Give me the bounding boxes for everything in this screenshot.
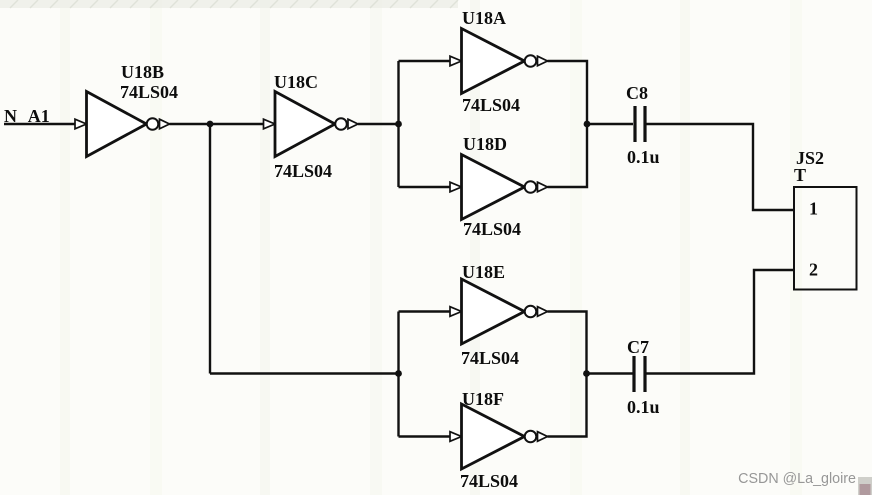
wire vertical split to U18A and U18D inputs — [397, 61, 399, 187]
top scan texture band — [0, 0, 458, 8]
junction node at (210,124) — [207, 121, 214, 128]
junction node at (586.5,373.5) — [583, 370, 590, 377]
svg-text:C7: C7 — [627, 337, 649, 357]
wire U18F output up to lower merge node — [548, 374, 587, 437]
svg-text:74LS04: 74LS04 — [462, 95, 520, 115]
svg-text:0.1u: 0.1u — [627, 147, 660, 167]
wire C8 to JS2 pin 1 — [647, 124, 795, 210]
svg-text:CSDN @La_gloire: CSDN @La_gloire — [738, 471, 856, 487]
svg-text:U18F: U18F — [462, 389, 504, 409]
wire to U18D input — [399, 186, 451, 188]
svg-text:74LS04: 74LS04 — [463, 219, 521, 239]
bottom rail wire — [210, 372, 399, 374]
wire U18D output up to merge node — [548, 124, 588, 187]
wire vertical from node down to bottom rail — [209, 124, 211, 374]
capacitor C7 — [634, 356, 645, 392]
svg-text:U18E: U18E — [462, 262, 505, 282]
capacitor C8 — [635, 106, 645, 142]
svg-text:U18C: U18C — [274, 72, 318, 92]
svg-text:C8: C8 — [626, 83, 648, 103]
wire net N_A1 input — [4, 123, 76, 125]
wire C7 to lower merge node — [587, 372, 633, 374]
junction node at (398.5,124) — [395, 121, 402, 128]
wire U18A output to merge node — [548, 61, 588, 124]
svg-text:U18B: U18B — [121, 62, 164, 82]
svg-text:74LS04: 74LS04 — [274, 161, 332, 181]
svg-text:N A1: N A1 — [4, 106, 50, 126]
svg-text:74LS04: 74LS04 — [461, 348, 519, 368]
watermark corner icon — [858, 477, 872, 495]
inverter U18C — [264, 92, 359, 157]
svg-text:74LS04: 74LS04 — [120, 82, 178, 102]
svg-text:74LS04: 74LS04 — [460, 471, 518, 491]
wire vertical split to U18E and U18F inputs — [397, 312, 399, 437]
inverter U18A — [450, 29, 548, 94]
wire JS2 pin 2 to C7 — [647, 270, 795, 374]
wire to U18F input — [399, 435, 451, 437]
junction node at (398.5,373.5) — [395, 370, 402, 377]
wire to U18A input — [399, 60, 451, 62]
svg-text:2: 2 — [809, 260, 818, 280]
wire merge node to C8 — [587, 123, 633, 125]
svg-text:T: T — [794, 165, 806, 185]
wire U18C output to split node — [358, 123, 399, 125]
wire U18B output to U18C input — [170, 123, 264, 125]
wire U18E output to lower merge node — [548, 312, 587, 374]
inverter U18E — [450, 279, 548, 344]
svg-text:U18D: U18D — [463, 134, 507, 154]
inverter U18B — [75, 92, 170, 157]
svg-text:0.1u: 0.1u — [627, 397, 660, 417]
inverter U18D — [450, 155, 548, 220]
wire to U18E input — [399, 310, 451, 312]
inverter U18F — [450, 404, 548, 469]
connector JS2 box — [794, 187, 857, 290]
svg-text:1: 1 — [809, 199, 818, 219]
junction node at (587,124) — [584, 121, 591, 128]
svg-text:U18A: U18A — [462, 8, 506, 28]
